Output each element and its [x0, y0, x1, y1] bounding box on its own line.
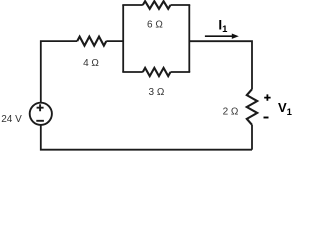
wire: top branch left lead: [122, 4, 143, 6]
resistor R4 2-ohm: [247, 89, 257, 125]
voltage source V 24V: [30, 103, 52, 125]
svg-text:2 Ω: 2 Ω: [223, 107, 239, 118]
polarity plus of V1: [264, 94, 270, 100]
label 24 V: [1, 114, 22, 125]
wire: bottom return rail to source negative terminal: [41, 125, 252, 150]
svg-text:4 Ω: 4 Ω: [83, 58, 99, 69]
label 3 ohm: [148, 87, 164, 98]
wire: node B to right vertical branch down to 2-ohm resistor: [189, 41, 252, 89]
label I1: [218, 17, 228, 35]
svg-text:V1: V1: [278, 100, 293, 118]
svg-text:3 Ω: 3 Ω: [148, 87, 164, 98]
label 4 ohm: [83, 58, 99, 69]
voltage source minus terminal mark: [36, 120, 44, 122]
wire: 4-ohm resistor to parallel combination node A: [106, 40, 123, 42]
resistor R2 6-ohm: [143, 1, 171, 9]
current arrow I1: [205, 34, 239, 39]
label V1: [278, 100, 293, 118]
resistor R3 3-ohm: [143, 68, 171, 76]
wire: bottom branch left lead: [122, 71, 143, 73]
svg-text:6 Ω: 6 Ω: [147, 20, 163, 31]
voltage source plus terminal mark: [37, 104, 44, 111]
polarity minus of V1: [264, 117, 269, 119]
wire: bottom branch right lead: [171, 71, 191, 73]
wire: source positive terminal up and right to 4-ohm resistor: [41, 41, 77, 103]
svg-text:I1: I1: [218, 17, 228, 35]
svg-text:24 V: 24 V: [1, 114, 22, 125]
wire: 2-ohm resistor to bottom rail: [251, 125, 253, 150]
wire: parallel box left vertical (node A): [122, 5, 124, 72]
resistor R1 4-ohm: [77, 37, 106, 46]
label 6 ohm: [147, 20, 163, 31]
wire: parallel box right vertical (node B): [188, 5, 190, 72]
wire: top branch right lead: [171, 4, 191, 6]
label 2 ohm: [223, 107, 239, 118]
